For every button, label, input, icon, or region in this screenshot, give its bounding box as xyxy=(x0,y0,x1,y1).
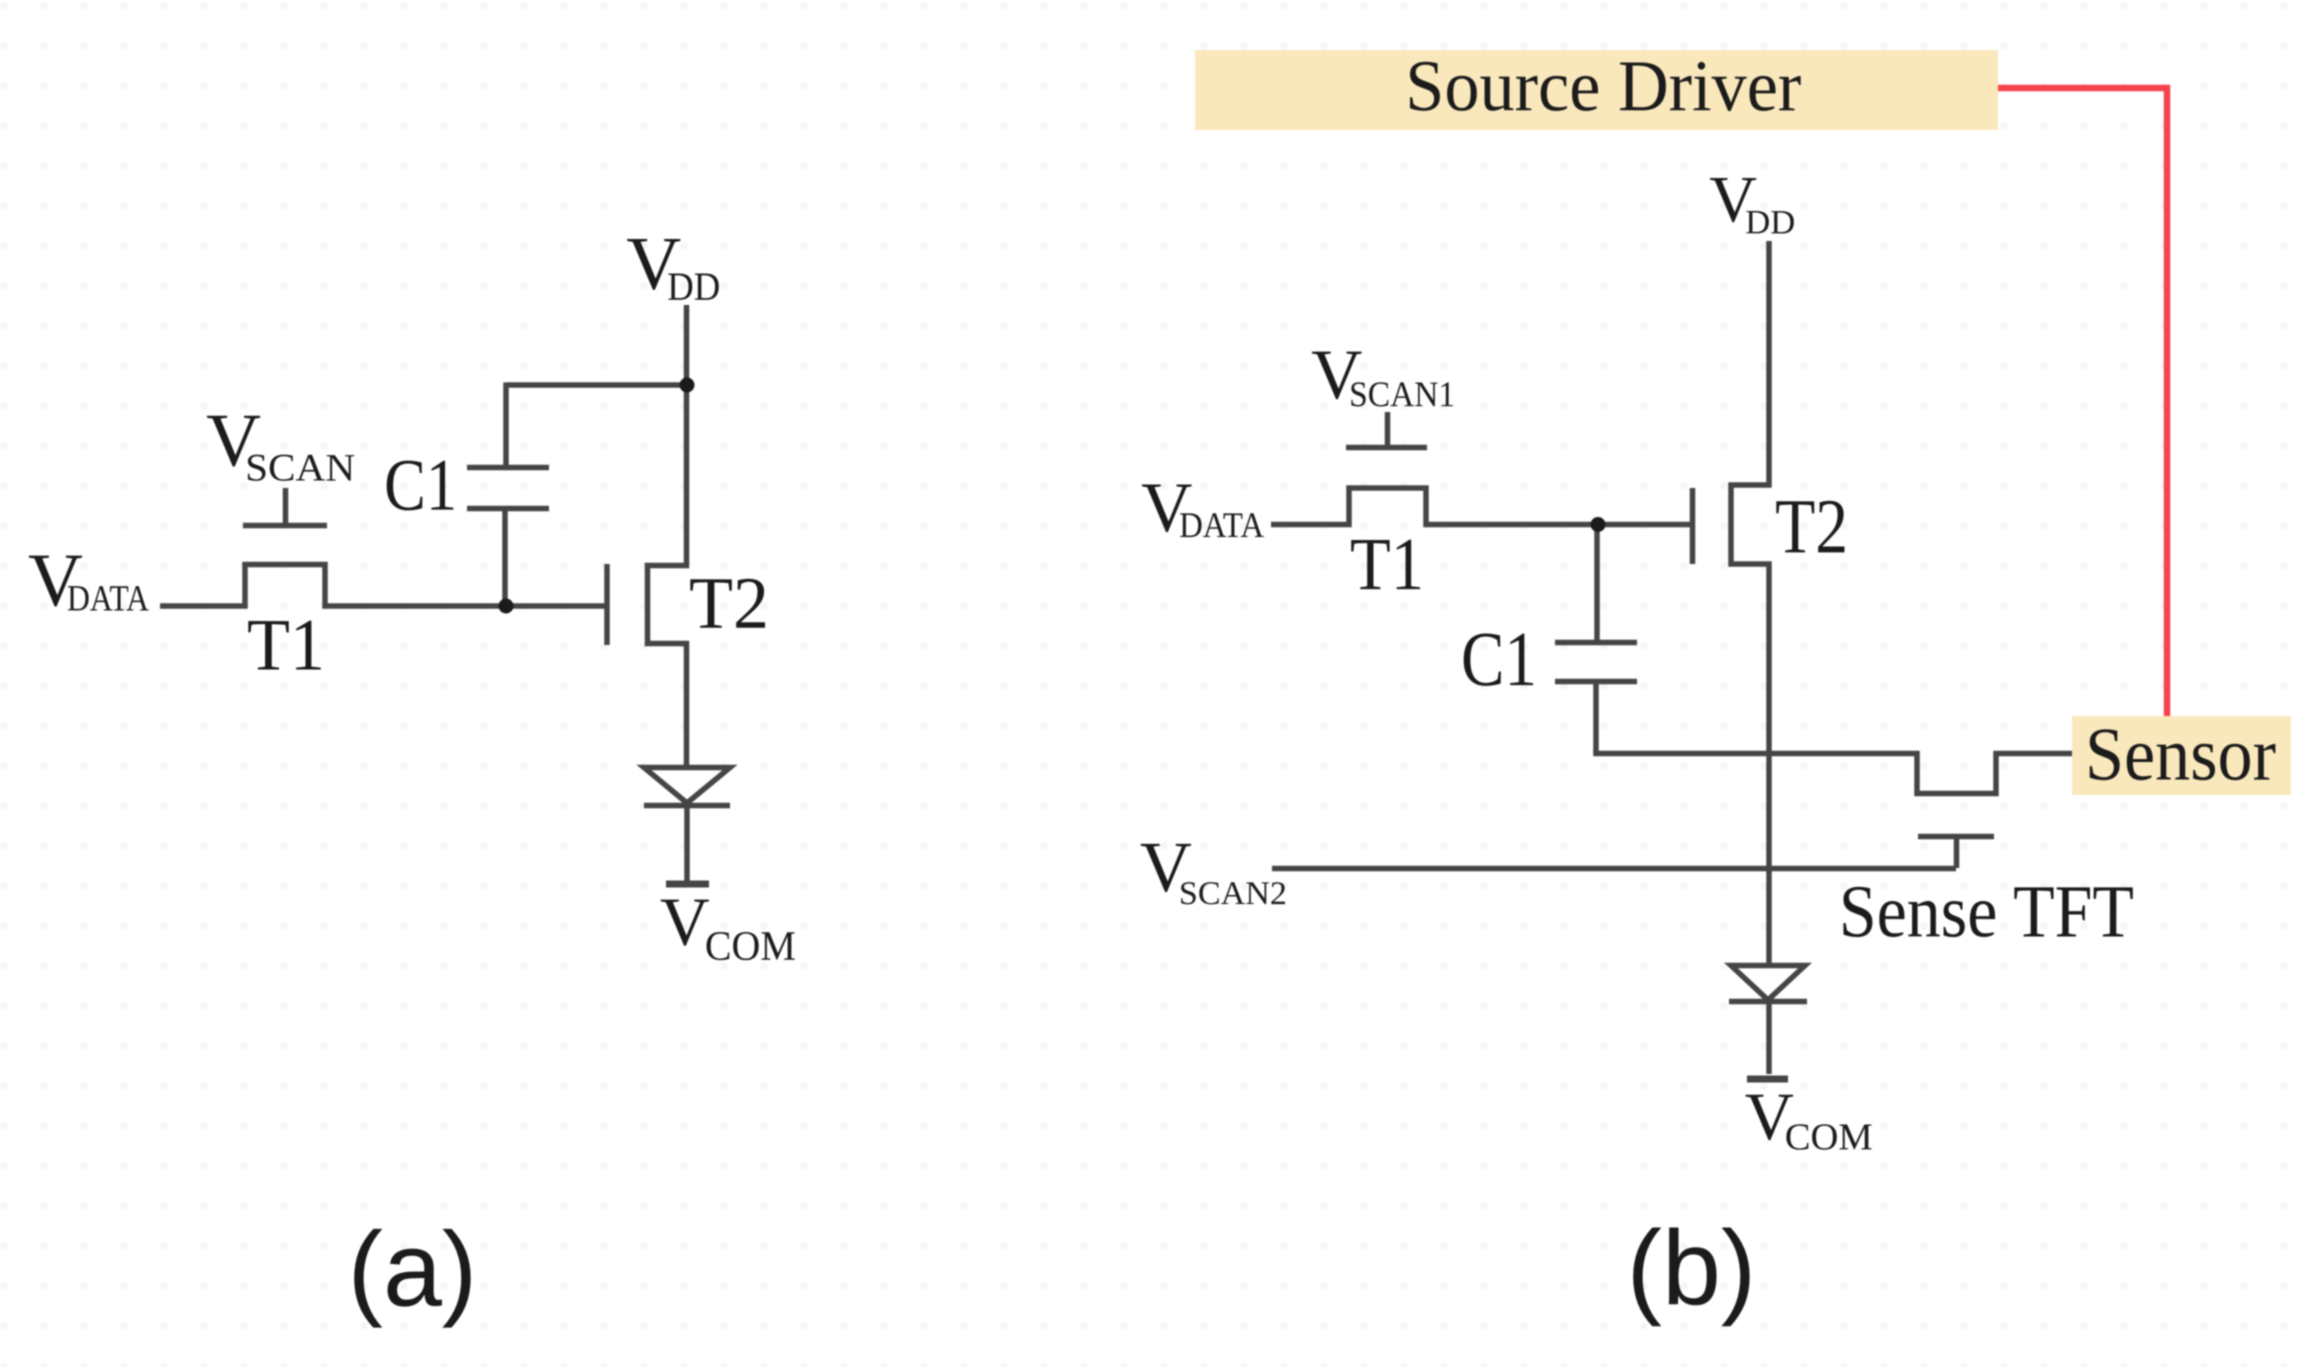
svg-text:C1: C1 xyxy=(1461,615,1537,702)
svg-text:T1: T1 xyxy=(1350,523,1424,606)
svg-text:(b): (b) xyxy=(1627,1209,1757,1327)
svg-text:T1: T1 xyxy=(247,605,325,687)
svg-text:DD: DD xyxy=(667,264,720,309)
svg-text:V: V xyxy=(660,884,710,960)
svg-text:Source Driver: Source Driver xyxy=(1405,45,1801,126)
svg-text:(a): (a) xyxy=(348,1211,478,1329)
svg-text:C1: C1 xyxy=(384,445,457,527)
svg-text:DD: DD xyxy=(1745,204,1795,241)
svg-text:Sense TFT: Sense TFT xyxy=(1839,870,2134,953)
svg-text:SCAN2: SCAN2 xyxy=(1179,876,1287,912)
svg-text:COM: COM xyxy=(1785,1116,1873,1158)
svg-text:COM: COM xyxy=(705,924,796,970)
svg-text:DATA: DATA xyxy=(67,578,149,619)
svg-text:SCAN1: SCAN1 xyxy=(1349,374,1455,414)
svg-text:T2: T2 xyxy=(689,563,769,645)
svg-text:T2: T2 xyxy=(1775,482,1848,569)
svg-text:DATA: DATA xyxy=(1179,505,1264,545)
svg-text:SCAN: SCAN xyxy=(245,447,355,490)
svg-text:Sensor: Sensor xyxy=(2085,712,2276,796)
